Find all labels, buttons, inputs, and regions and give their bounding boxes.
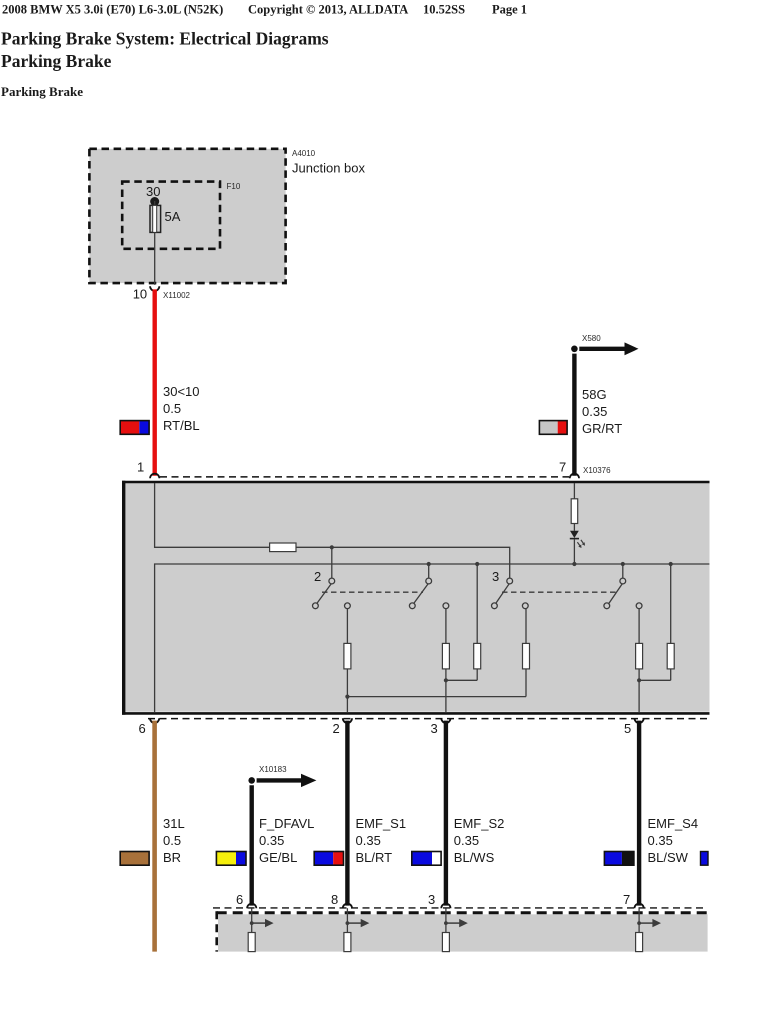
svg-text:10.52SS: 10.52SS <box>423 3 465 17</box>
fuse box F10 <box>122 182 220 249</box>
pin 7 internal: resistor and LED <box>573 483 575 499</box>
wire GR/RT <box>572 354 576 476</box>
svg-text:GR/RT: GR/RT <box>582 421 622 436</box>
resistor branch bus <box>476 564 478 644</box>
resistor branch S2a <box>445 609 447 644</box>
svg-text:X10376: X10376 <box>583 466 611 475</box>
svg-text:30: 30 <box>146 184 160 199</box>
svg-text:0.5: 0.5 <box>163 401 181 416</box>
swatch BL/WS <box>412 852 441 866</box>
gang link switch 2 <box>322 591 423 593</box>
svg-text:X11002: X11002 <box>163 291 191 300</box>
svg-text:3: 3 <box>428 892 435 907</box>
node <box>475 562 479 566</box>
wire EMF_S2 <box>444 721 448 906</box>
svg-text:Page 1: Page 1 <box>492 3 527 17</box>
svg-text:2: 2 <box>314 569 321 584</box>
resistor branch S3b to pin 5 <box>638 609 640 644</box>
connector X10183 <box>248 777 255 784</box>
swatch BL/RT <box>314 852 343 866</box>
bottom control unit box <box>217 911 708 951</box>
svg-text:2: 2 <box>333 721 340 736</box>
wire BR brown <box>152 721 157 952</box>
svg-text:8: 8 <box>331 892 338 907</box>
junction box A4010 <box>89 149 285 283</box>
gang link switch 3 <box>502 591 617 593</box>
svg-text:Parking Brake: Parking Brake <box>1 84 83 99</box>
svg-text:Junction box: Junction box <box>292 161 365 176</box>
svg-text:6: 6 <box>139 721 146 736</box>
svg-text:0.35: 0.35 <box>259 833 284 848</box>
switch 2 (gang b) <box>414 583 429 604</box>
svg-text:Parking Brake System: Electric: Parking Brake System: Electrical Diagram… <box>1 29 329 49</box>
svg-text:5A: 5A <box>165 209 181 224</box>
node <box>427 562 431 566</box>
wire contact S2a to pin 2 <box>346 609 348 644</box>
svg-text:0.5: 0.5 <box>163 833 181 848</box>
svg-text:2008 BMW X5 3.0i (E70) L6-3.0L: 2008 BMW X5 3.0i (E70) L6-3.0L (N52K) <box>2 3 223 17</box>
svg-text:0.35: 0.35 <box>582 404 607 419</box>
svg-text:7: 7 <box>623 892 630 907</box>
wire RT/BL red <box>152 289 156 475</box>
svg-text:EMF_S4: EMF_S4 <box>648 816 699 831</box>
svg-text:31L: 31L <box>163 816 185 831</box>
swatch GR/RT <box>539 421 567 435</box>
bottom connector dashed line <box>148 718 708 720</box>
resistor branch bus right <box>670 564 672 644</box>
svg-text:1: 1 <box>137 460 144 475</box>
svg-text:3: 3 <box>492 569 499 584</box>
top connector dashed line <box>160 476 569 478</box>
svg-text:GE/BL: GE/BL <box>259 850 297 865</box>
svg-text:A4010: A4010 <box>292 149 316 158</box>
wire EMF_S4 <box>637 721 641 906</box>
svg-text:EMF_S1: EMF_S1 <box>356 816 407 831</box>
wire fuse to pin 10 <box>154 232 156 285</box>
connector pin 10 chevron <box>150 286 159 291</box>
node <box>621 562 625 566</box>
svg-text:BL/RT: BL/RT <box>356 850 393 865</box>
svg-text:BR: BR <box>163 850 181 865</box>
svg-text:Parking Brake: Parking Brake <box>1 51 112 71</box>
resistor (horizontal) <box>270 543 296 552</box>
svg-text:F_DFAVL: F_DFAVL <box>259 816 314 831</box>
svg-text:BL/WS: BL/WS <box>454 850 495 865</box>
svg-text:7: 7 <box>559 460 566 475</box>
resistor branch S3a <box>525 609 527 644</box>
svg-text:6: 6 <box>236 892 243 907</box>
swatch RT/BL <box>120 421 149 435</box>
svg-text:0.35: 0.35 <box>454 833 479 848</box>
svg-text:5: 5 <box>624 721 631 736</box>
node under LED <box>572 562 576 566</box>
swatch GE/BL <box>216 852 246 866</box>
swatch BR <box>120 852 149 866</box>
svg-text:EMF_S2: EMF_S2 <box>454 816 505 831</box>
svg-text:0.35: 0.35 <box>356 833 381 848</box>
node <box>345 695 349 699</box>
svg-text:0.35: 0.35 <box>648 833 673 848</box>
svg-text:58G: 58G <box>582 387 607 402</box>
swatch BL/SW <box>604 852 634 866</box>
EMF control unit box <box>122 481 710 715</box>
svg-text:X580: X580 <box>582 334 601 343</box>
bottom connector dashed line <box>213 907 708 909</box>
svg-text:BL/SW: BL/SW <box>648 850 689 865</box>
svg-text:Copyright © 2013, ALLDATA: Copyright © 2013, ALLDATA <box>248 3 408 17</box>
connector X580 <box>571 346 578 353</box>
internal bus wire (pin 6) <box>155 564 710 712</box>
wire EMF_S1 <box>345 721 349 906</box>
svg-text:3: 3 <box>431 721 438 736</box>
svg-text:RT/BL: RT/BL <box>163 418 200 433</box>
svg-text:F10: F10 <box>227 182 241 191</box>
svg-text:30<10: 30<10 <box>163 384 200 399</box>
switch 3 (gang b) <box>609 583 623 604</box>
node <box>669 562 673 566</box>
svg-text:X10183: X10183 <box>259 765 287 774</box>
partial swatch at right edge <box>701 852 709 866</box>
LED <box>570 531 579 538</box>
node junction on top wire <box>330 545 334 549</box>
internal wire from pin 1 <box>155 483 270 547</box>
svg-text:10: 10 <box>133 287 147 302</box>
wire GE/BL <box>249 785 253 905</box>
